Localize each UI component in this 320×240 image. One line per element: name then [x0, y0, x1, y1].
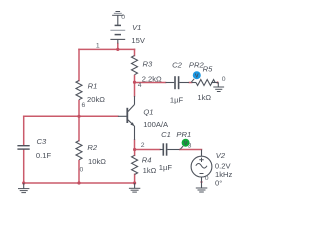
svg-text:2: 2	[141, 142, 145, 149]
svg-text:V: V	[195, 73, 199, 79]
svg-text:C3: C3	[37, 137, 47, 146]
svg-text:R3: R3	[143, 60, 153, 69]
svg-text:0: 0	[121, 14, 125, 21]
svg-text:20kΩ: 20kΩ	[87, 95, 105, 104]
svg-text:0: 0	[205, 175, 209, 182]
svg-text:1: 1	[96, 42, 100, 49]
svg-text:R4: R4	[142, 155, 152, 164]
svg-text:0: 0	[80, 167, 84, 174]
svg-text:0: 0	[222, 76, 226, 83]
svg-text:R1: R1	[88, 82, 98, 91]
svg-text:Q1: Q1	[143, 108, 153, 117]
svg-text:0°: 0°	[215, 178, 222, 187]
svg-text:V: V	[184, 141, 188, 147]
svg-text:1µF: 1µF	[170, 95, 184, 104]
svg-text:R2: R2	[87, 143, 97, 152]
svg-text:V2: V2	[216, 151, 226, 160]
svg-text:V1: V1	[132, 23, 141, 32]
svg-text:PR1: PR1	[176, 130, 191, 139]
svg-text:4: 4	[138, 82, 142, 89]
svg-text:1kΩ: 1kΩ	[143, 166, 157, 175]
svg-text:C1: C1	[161, 130, 171, 139]
svg-text:100A/A: 100A/A	[143, 120, 169, 129]
svg-text:2.2kΩ: 2.2kΩ	[142, 75, 162, 84]
svg-text:1kΩ: 1kΩ	[197, 93, 211, 102]
svg-text:10kΩ: 10kΩ	[88, 157, 106, 166]
svg-text:6: 6	[82, 102, 86, 109]
svg-text:R5: R5	[203, 65, 213, 74]
svg-text:15V: 15V	[131, 36, 145, 45]
svg-text:1µF: 1µF	[159, 163, 173, 172]
svg-text:C2: C2	[172, 60, 182, 69]
svg-text:0.1F: 0.1F	[36, 151, 52, 160]
